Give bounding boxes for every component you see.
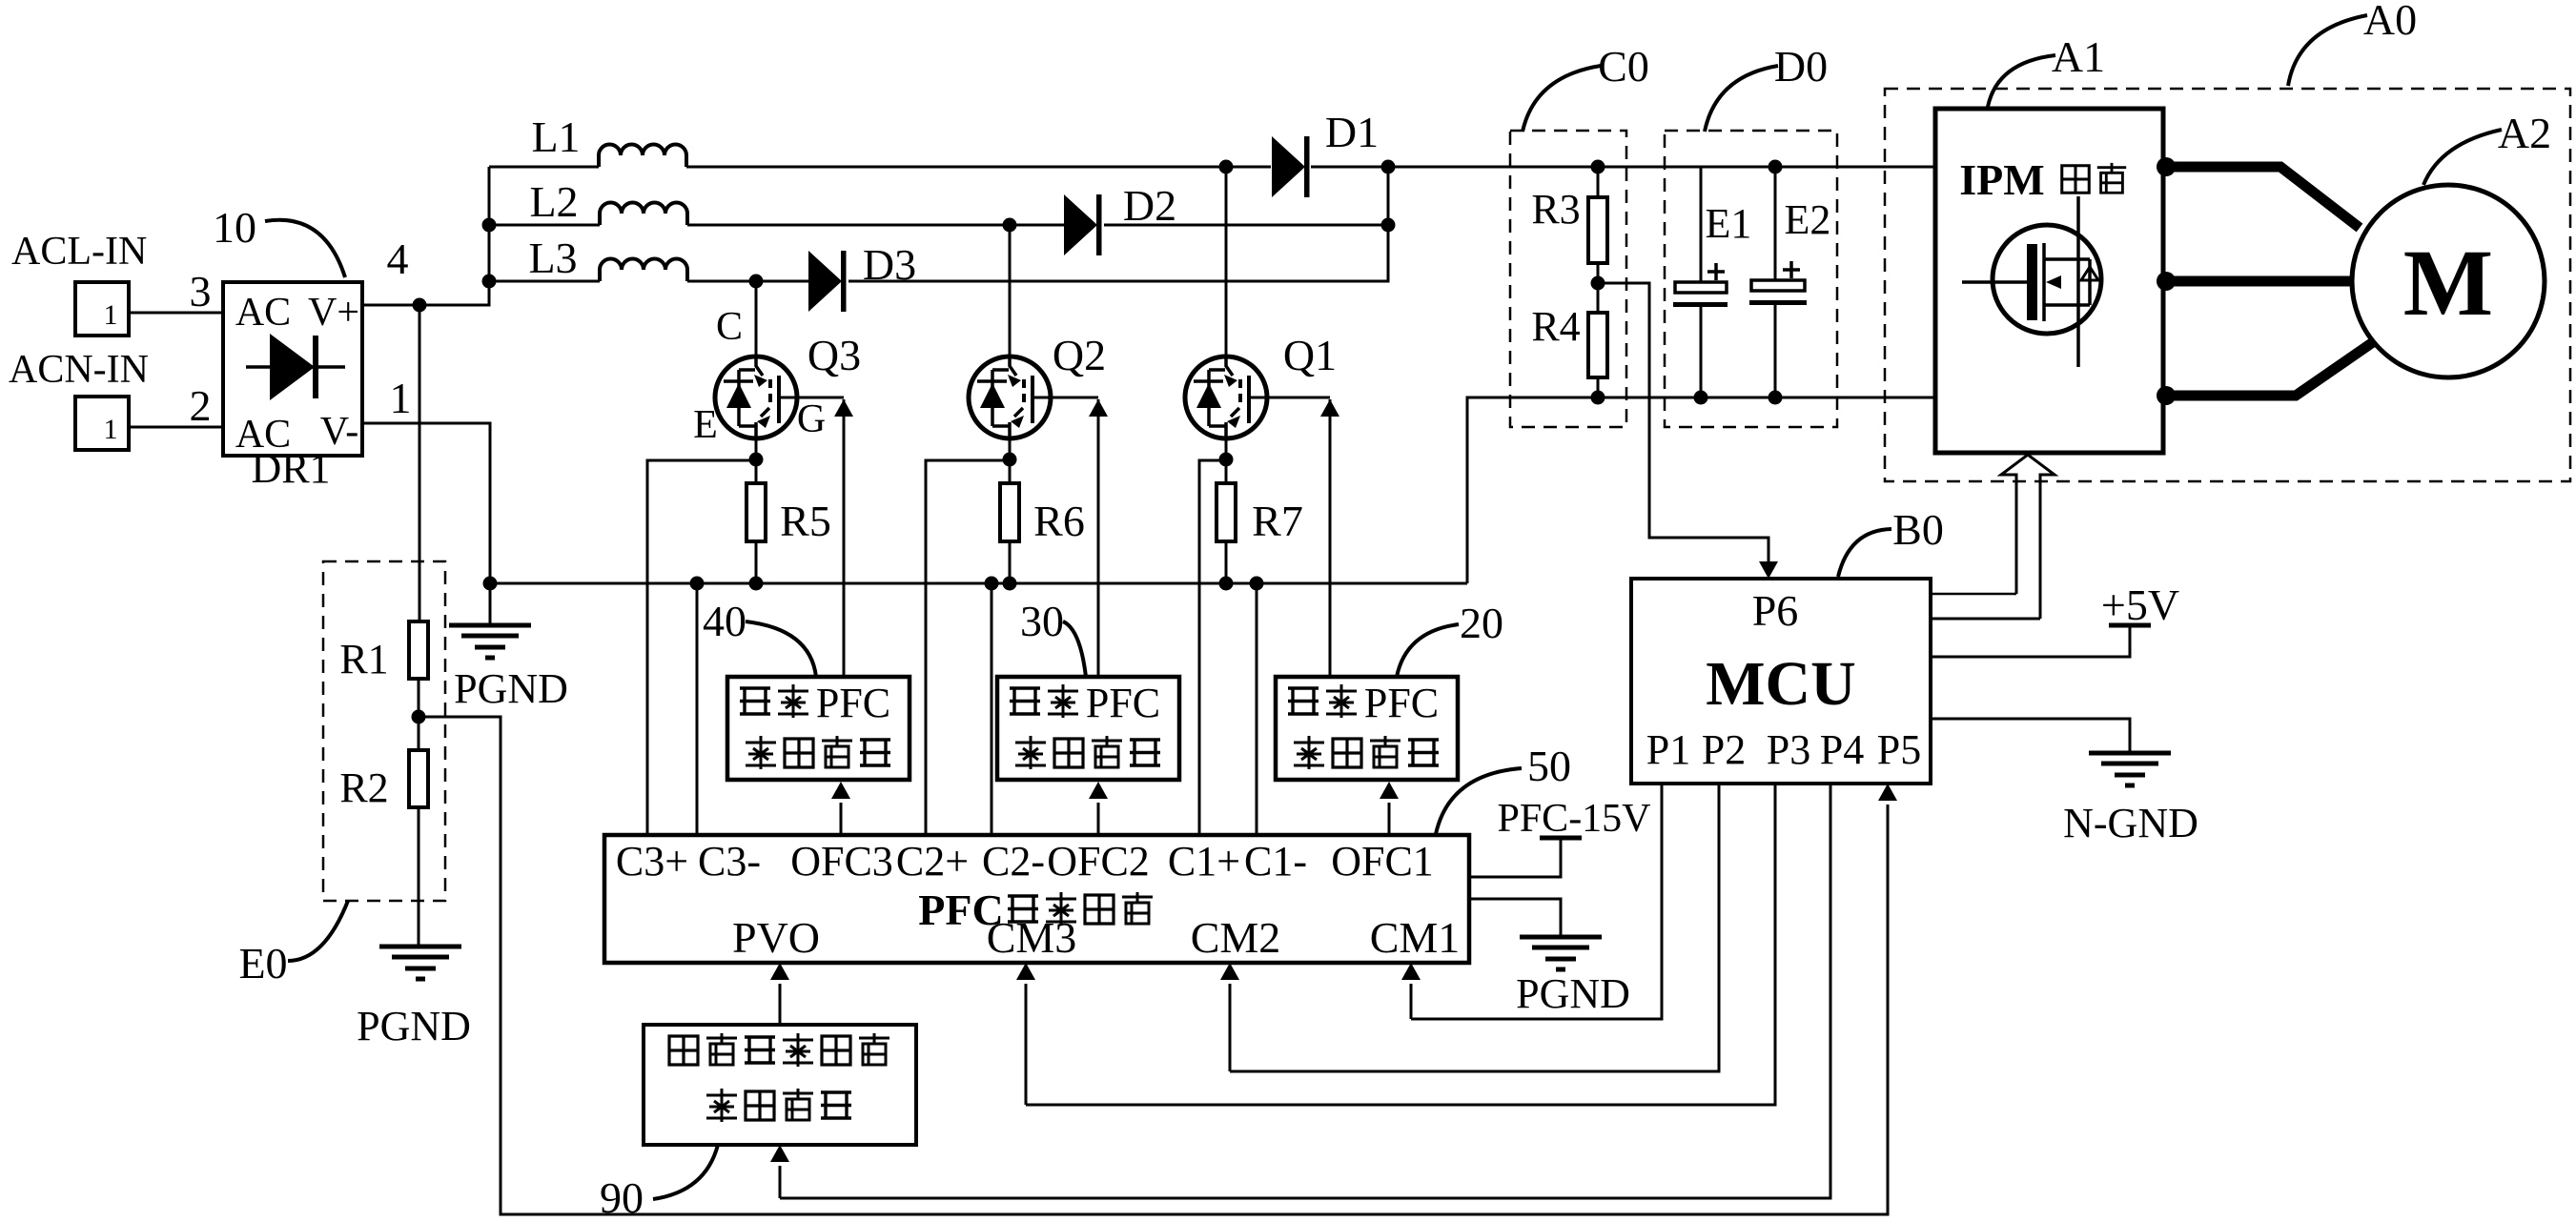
svg-text:90: 90 (600, 1173, 644, 1222)
node Q2 emitter junction (1003, 453, 1017, 467)
ground PGND lower (357, 947, 471, 1049)
svg-text:D2: D2 (1123, 181, 1176, 230)
bus junctions (483, 577, 1264, 591)
node Q1 collector junction (1219, 160, 1234, 174)
svg-text:30: 30 (1020, 597, 1064, 645)
dashed box A0 (1885, 89, 2570, 481)
node E2 bottom (1768, 391, 1783, 405)
inductor L3 (489, 234, 687, 282)
svg-text:R5: R5 (780, 497, 831, 545)
node Q3 collector junction (749, 275, 764, 289)
wire OFC1 arrow (1380, 782, 1399, 835)
svg-text:N-GND: N-GND (2063, 800, 2198, 846)
svg-text:10: 10 (213, 203, 256, 252)
inductor L2 (489, 177, 687, 226)
svg-text:CM1: CM1 (1370, 913, 1461, 962)
svg-text:P5: P5 (1877, 726, 1921, 773)
ground PGND chip (1469, 899, 1630, 1017)
mosfet symbol inside IPM (1962, 196, 2101, 367)
wire D2 output (1104, 224, 1388, 227)
node ACN-IN label (9, 348, 149, 392)
resistor R4 (1531, 303, 1607, 377)
svg-text:D0: D0 (1774, 42, 1828, 91)
ground N-GND (1931, 719, 2198, 846)
node R4 bottom (1591, 391, 1605, 405)
wire R1 to R2 (418, 679, 420, 750)
svg-text:P3: P3 (1767, 726, 1810, 773)
svg-text:C3-: C3- (698, 838, 761, 885)
label B0 leader (1838, 505, 1944, 577)
wire P1 to CM1 (1401, 784, 1662, 1019)
transistor Q3 (693, 305, 861, 447)
power +5V (1931, 580, 2179, 657)
wire P2 to CM2 (1220, 784, 1719, 1071)
svg-text:A2: A2 (2498, 109, 2551, 157)
svg-text:Q3: Q3 (808, 331, 861, 379)
svg-text:1: 1 (104, 299, 118, 331)
wire Q3 emitter (755, 438, 758, 459)
node E2 top (1768, 160, 1783, 174)
wire Q1 collector (1225, 167, 1228, 356)
svg-text:PFC-15V: PFC-15V (1497, 797, 1650, 841)
svg-text:PFC: PFC (1086, 680, 1160, 726)
capacitor E2 (1749, 167, 1830, 397)
label E0 leader (238, 901, 348, 988)
wire D1 to DC+ rail (1311, 166, 1935, 169)
module 30 second PFC drive (997, 677, 1179, 780)
svg-text:OFC3: OFC3 (790, 838, 893, 885)
transistor Q1 (1185, 331, 1337, 438)
capacitor E1 (1673, 167, 1751, 397)
svg-text:ACL-IN: ACL-IN (11, 230, 147, 274)
svg-text:ACN-IN: ACN-IN (9, 348, 149, 392)
node L3 tap (482, 275, 497, 289)
node 4 junction (413, 298, 427, 313)
bridge rectifier DR1 (223, 282, 362, 457)
label 90 leader (600, 1145, 718, 1222)
wire DR1 V+ output node 4 (362, 167, 489, 305)
dashed box E0 (323, 561, 445, 901)
wire Q3 emitter to C3+ (647, 460, 756, 835)
node E1 bottom (1694, 391, 1708, 405)
svg-text:PFC: PFC (1364, 680, 1439, 726)
svg-text:1: 1 (104, 414, 118, 445)
wire MCU to arrow shaft right (1931, 618, 2040, 621)
wire OFC3 arrow (831, 782, 850, 835)
svg-text:OFC1: OFC1 (1331, 838, 1434, 885)
svg-text:G: G (797, 397, 826, 441)
svg-text:PVO: PVO (732, 913, 820, 962)
module 40 third PFC drive (727, 677, 910, 780)
ground PGND upper (449, 583, 568, 712)
svg-text:E0: E0 (238, 939, 287, 988)
diode D1 (1272, 108, 1379, 197)
pin 3 label (190, 267, 212, 316)
svg-text:OFC2: OFC2 (1047, 838, 1150, 885)
label C0 leader (1523, 42, 1649, 132)
svg-text:R3: R3 (1531, 186, 1580, 233)
wire P5 voltage sense (419, 717, 1897, 1214)
svg-text:Q1: Q1 (1283, 331, 1337, 379)
svg-text:D1: D1 (1325, 108, 1379, 156)
label 20 leader (1397, 599, 1503, 677)
label A1 leader (1988, 32, 2105, 107)
svg-text:E1: E1 (1706, 200, 1752, 247)
svg-text:CM2: CM2 (1191, 913, 1281, 962)
node Q3 emitter junction (749, 453, 764, 467)
svg-text:C1-: C1- (1244, 838, 1307, 885)
motor A2 circle M (2352, 185, 2545, 377)
hollow arrow MCU to IPM (2001, 455, 2055, 619)
svg-text:R2: R2 (339, 764, 388, 811)
wire Q2 emitter (1009, 438, 1012, 459)
svg-text:Q2: Q2 (1053, 331, 1106, 379)
svg-text:PGND: PGND (357, 1003, 471, 1049)
wire L1 to D1 (686, 166, 1271, 169)
phase wire U (2157, 157, 2360, 228)
svg-text:P2: P2 (1702, 726, 1746, 773)
connector J2 pin 1 (75, 397, 129, 450)
label 30 leader (1020, 597, 1086, 677)
diode D3 (808, 240, 916, 312)
svg-text:MCU: MCU (1706, 649, 1856, 719)
wire J2 to DR1 pin 2 (129, 426, 223, 429)
wire OFC2 arrow (1089, 782, 1108, 835)
svg-text:PGND: PGND (454, 665, 568, 712)
DR1 reference label (251, 445, 330, 492)
IPM title text (1959, 155, 2126, 204)
svg-text:PGND: PGND (1516, 970, 1630, 1017)
wire Q1 emitter (1225, 438, 1228, 459)
svg-text:R6: R6 (1033, 497, 1085, 545)
wire L2 to D2 (687, 224, 1064, 227)
svg-text:C0: C0 (1598, 42, 1649, 91)
svg-text:CM3: CM3 (987, 913, 1077, 962)
wire isolation to PVO arrow (770, 963, 789, 1025)
svg-text:+5V: +5V (2101, 580, 2179, 629)
node ACL-IN label (11, 230, 147, 274)
wire C1- riser (1256, 583, 1258, 835)
module 20 first PFC drive (1276, 677, 1458, 780)
label A2 leader (2423, 109, 2551, 185)
svg-text:E: E (693, 403, 718, 447)
svg-text:B0: B0 (1892, 505, 1944, 554)
phase wire V (2157, 272, 2352, 291)
wire R4 bottom (1597, 377, 1600, 397)
svg-text:C1+: C1+ (1168, 838, 1240, 885)
inductor L1 (489, 112, 686, 167)
svg-text:PFC: PFC (816, 680, 890, 726)
label 10 leader (213, 203, 345, 277)
diode D2 (1064, 181, 1176, 255)
svg-text:R4: R4 (1531, 303, 1580, 350)
resistor R3 (1531, 167, 1607, 263)
wire Q2 emitter to C2+ (926, 460, 1010, 835)
pin 1 label (V-) (390, 374, 412, 422)
transistor Q2 (969, 331, 1106, 438)
dashed box D0 (1665, 131, 1837, 427)
svg-text:2: 2 (190, 381, 212, 430)
node Q1 emitter junction (1219, 453, 1234, 467)
phase wire W (2157, 342, 2373, 405)
wire Q1 emitter to C1+ (1199, 460, 1226, 835)
node R1/R2 junction (412, 710, 426, 724)
node diode merge junctions (1381, 160, 1396, 233)
label 40 leader (703, 597, 816, 677)
resistor R1 (339, 621, 428, 682)
wire Q3 collector (755, 281, 758, 356)
pin 4 label (387, 234, 409, 283)
svg-text:L2: L2 (529, 177, 578, 226)
svg-text:E2: E2 (1785, 196, 1831, 243)
svg-text:V+: V+ (308, 291, 359, 335)
svg-text:50: 50 (1527, 742, 1571, 790)
svg-text:40: 40 (703, 597, 746, 645)
svg-text:C2-: C2- (982, 838, 1045, 885)
chip 50 PFC control (604, 835, 1469, 963)
wire C3- riser (696, 583, 699, 835)
svg-text:A0: A0 (2363, 0, 2417, 44)
svg-text:P1: P1 (1646, 726, 1690, 773)
module B0 MCU box (1631, 579, 1931, 784)
wire P3 to CM3 (1016, 784, 1775, 1105)
dashed box C0 (1510, 131, 1626, 427)
resistor R7 (1216, 459, 1303, 583)
resistor R2 (339, 750, 428, 811)
wire Q2 gate (1051, 397, 1108, 677)
resistor R5 (746, 459, 831, 583)
wire R3 to R4 (1597, 263, 1600, 313)
module A1 IPM box (1935, 109, 2163, 453)
wire DR1 V- output (362, 423, 490, 583)
node L2 tap (482, 218, 497, 233)
wire L3 to D3 (687, 280, 808, 283)
svg-text:1: 1 (390, 374, 412, 422)
connector J1 pin 1 (75, 282, 129, 336)
svg-text:M: M (2403, 230, 2493, 336)
node R3/R4 midpoint (1591, 276, 1605, 291)
svg-text:4: 4 (387, 234, 409, 283)
wire DC- rail (1467, 397, 1935, 583)
svg-text:L1: L1 (531, 112, 580, 161)
svg-text:C: C (716, 305, 743, 349)
pin 2 label (190, 381, 212, 430)
wire MCU to arrow shaft left (1931, 593, 2016, 596)
wire P4 to isolation module (770, 784, 1830, 1198)
svg-text:IPM: IPM (1959, 155, 2044, 204)
node Q2 collector junction (1003, 218, 1017, 233)
wire Q3 gate (797, 397, 853, 677)
svg-text:R7: R7 (1252, 497, 1303, 545)
svg-text:C2+: C2+ (896, 838, 969, 885)
wire negative bus (490, 582, 1467, 585)
svg-text:3: 3 (190, 267, 212, 316)
svg-text:P4: P4 (1820, 726, 1864, 773)
svg-text:C3+: C3+ (616, 838, 688, 885)
wire Q2 collector (1009, 225, 1012, 356)
svg-text:AC: AC (235, 291, 291, 335)
node R3 top (1591, 160, 1605, 174)
power PFC-15V (1469, 797, 1651, 877)
wire C2- riser (991, 583, 993, 835)
wire D3 output merge (848, 167, 1388, 281)
wire node4 to R1 (419, 305, 421, 621)
svg-text:L3: L3 (528, 234, 577, 282)
svg-text:A1: A1 (2052, 32, 2105, 81)
wire midpoint sense to MCU P6 (1598, 283, 1778, 579)
svg-text:R1: R1 (339, 636, 388, 682)
wire R2 to ground (418, 807, 420, 947)
label 50 leader (1436, 742, 1571, 834)
label A0 leader (2288, 0, 2417, 86)
svg-text:P6: P6 (1752, 586, 1799, 635)
wire Q1 gate (1267, 397, 1339, 677)
resistor R6 (1000, 459, 1085, 583)
svg-text:DR1: DR1 (251, 445, 330, 492)
wire J1 to DR1 pin 3 (129, 312, 223, 315)
label D0 leader (1705, 42, 1828, 132)
svg-text:20: 20 (1460, 599, 1503, 647)
module 90 voltage control signal isolation (644, 1025, 916, 1145)
